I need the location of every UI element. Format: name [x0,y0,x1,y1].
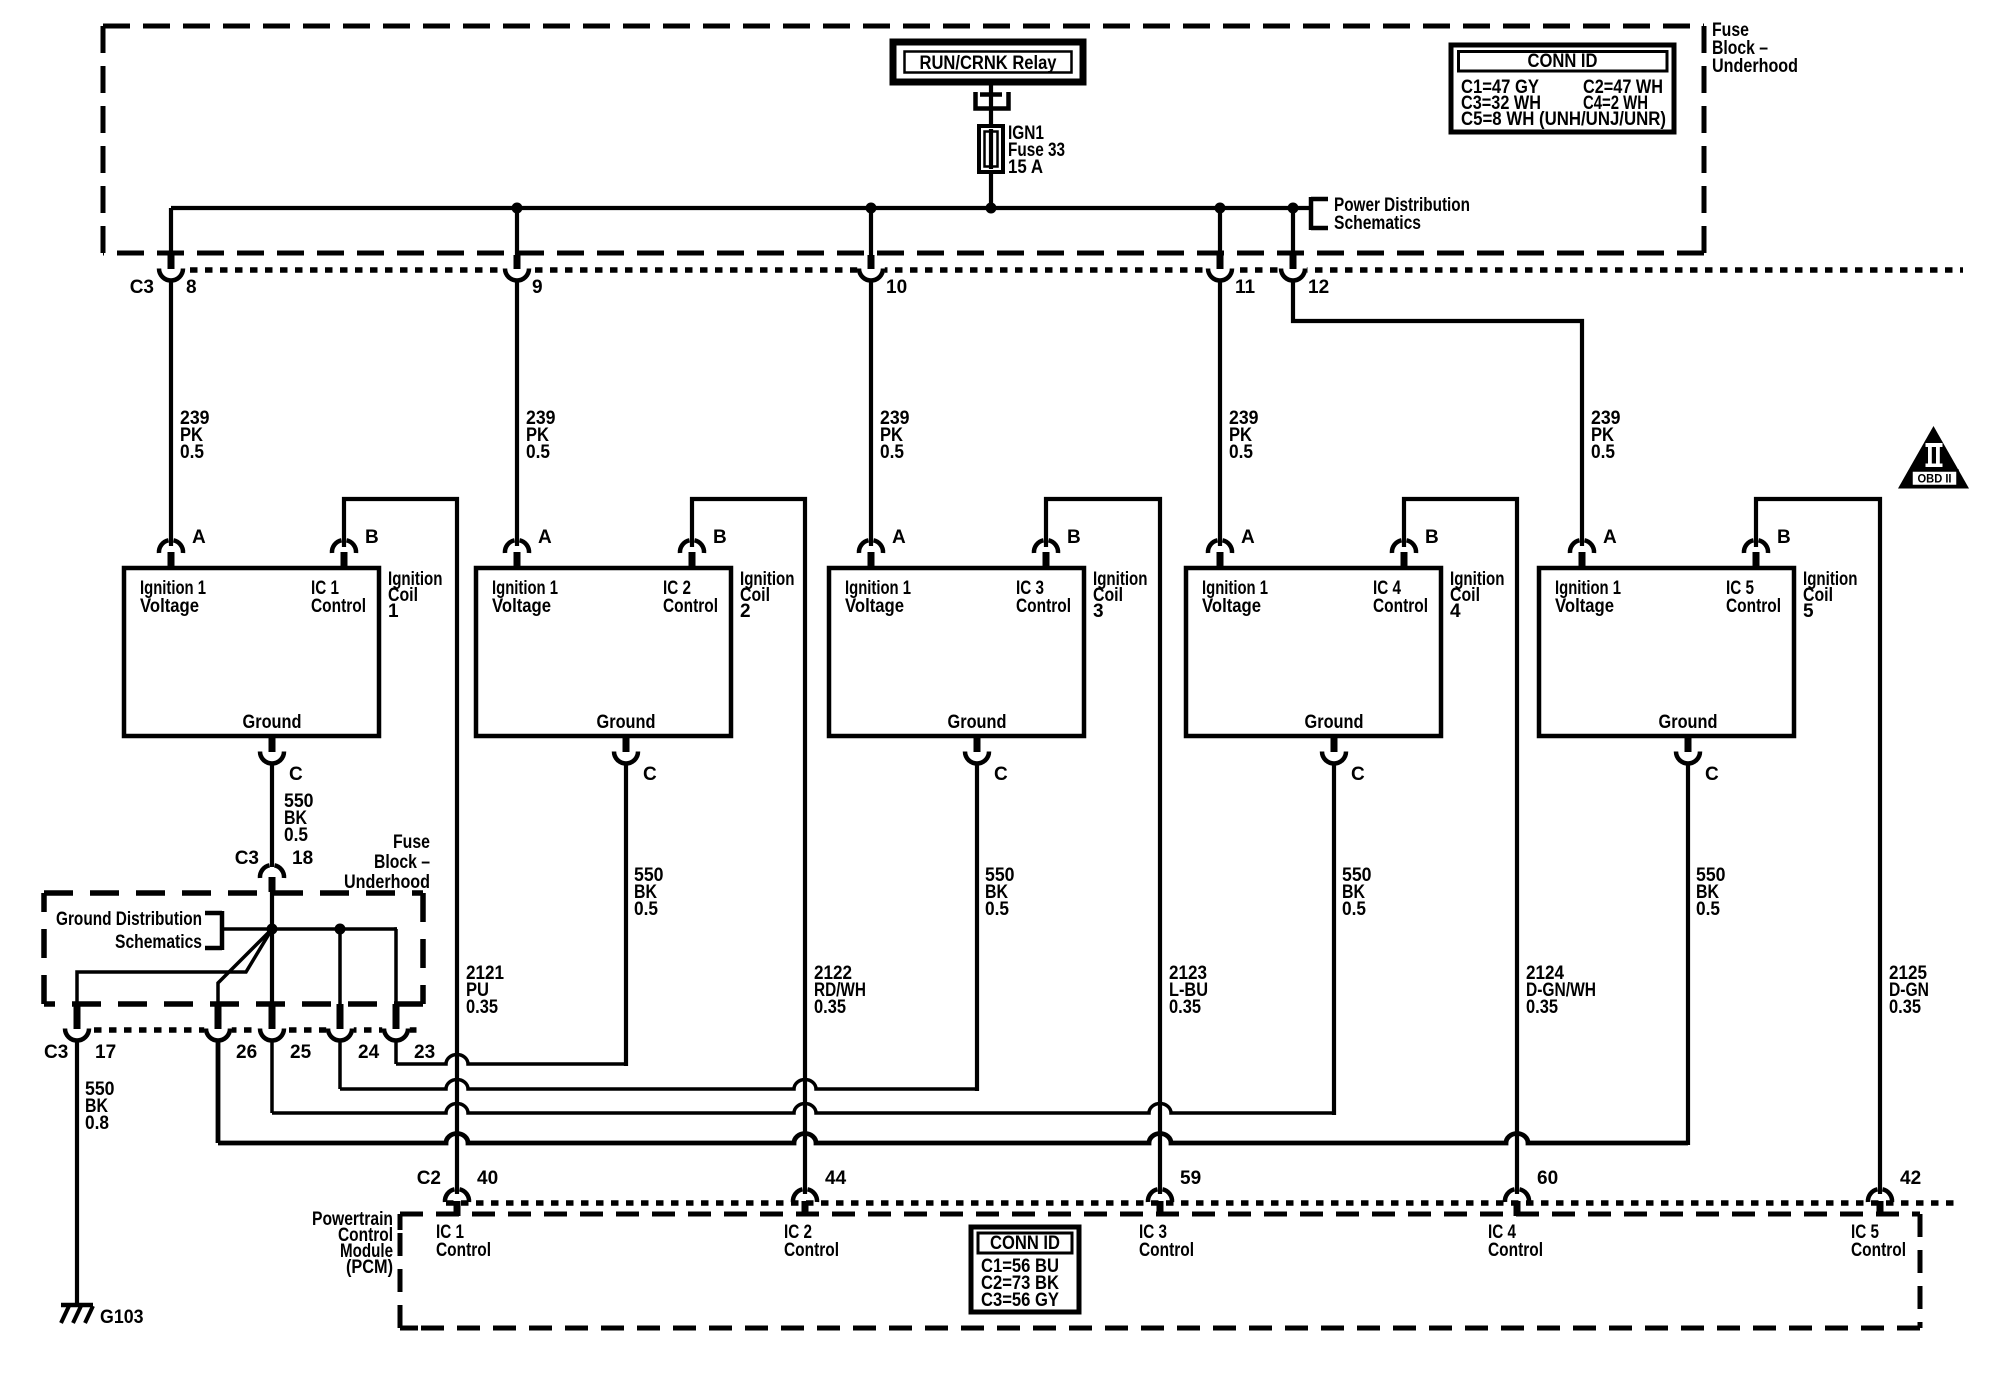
label C3 (top connector row) [130,277,154,298]
connector C3 pin 24 [326,1004,380,1063]
svg-text:C5=8 WH (UNH/UNJ/UNR): C5=8 WH (UNH/UNJ/UNR) [1461,109,1666,130]
svg-text:26: 26 [236,1042,257,1063]
svg-text:Ground: Ground [1305,712,1364,733]
svg-text:44: 44 [825,1168,847,1189]
connector pin B coil 3 [1034,527,1081,567]
label Ignition Coil 5 [1803,569,1858,622]
connector pin B coil 2 [680,527,727,567]
svg-text:Voltage: Voltage [845,596,904,617]
svg-text:C: C [1351,764,1365,785]
connector pin A coil 5 [1570,527,1617,567]
svg-text:C2: C2 [417,1168,441,1189]
connector C3 pin 23 [382,1004,435,1063]
svg-text:A: A [538,527,552,548]
wire ground coil 3 (pin 24) [340,764,1015,1091]
connector C2 pin 59 [1148,1168,1201,1216]
connector C3 pin 11 [1206,255,1256,298]
svg-text:15 A: 15 A [1008,157,1043,178]
svg-text:42: 42 [1900,1168,1921,1189]
wire ground coil 5 (pin 26) [218,764,1726,1145]
internal ground bus of fuse block [77,892,397,1029]
connector pin A coil 3 [859,527,906,567]
svg-text:Ground: Ground [948,712,1007,733]
svg-text:Ground Distribution: Ground Distribution [56,909,202,930]
svg-text:B: B [1425,527,1439,548]
connector row C3 lower (dotted) [64,1027,422,1033]
connector C2 pin 60 [1505,1168,1558,1216]
svg-text:A: A [892,527,906,548]
svg-text:17: 17 [95,1042,116,1063]
label IC 4 Control (PCM) [1488,1222,1543,1261]
ground distribution schematics reference bracket [56,909,222,953]
svg-text:0.5: 0.5 [880,442,904,463]
wire 239 PK 0.5 to coil 4 pin A [1220,281,1259,546]
connector C3 pin 9 [503,255,543,298]
svg-text:Control: Control [1373,596,1428,617]
ignition coil 2 box [476,568,731,736]
wire 2125 D-GN 0.35 coil 5 B to PCM [1756,499,1929,1194]
svg-text:A: A [1241,527,1255,548]
svg-text:0.5: 0.5 [1342,899,1366,920]
connector C2 pin 42 [1868,1168,1921,1216]
svg-text:Control: Control [1726,596,1781,617]
svg-text:C: C [1705,764,1719,785]
connector pin A coil 4 [1208,527,1255,567]
svg-text:0.35: 0.35 [814,997,846,1018]
label Ignition Coil 1 [388,569,443,622]
svg-text:Voltage: Voltage [140,596,199,617]
svg-text:C: C [289,764,303,785]
svg-text:Control: Control [784,1240,839,1261]
wire fuse to bus [989,172,993,208]
label Ignition Coil 3 [1093,569,1148,622]
connector pin C coil 4 [1320,737,1365,785]
label IGN1 Fuse 33 15 A [1008,123,1065,178]
svg-text:Voltage: Voltage [1202,596,1261,617]
svg-text:40: 40 [477,1168,498,1189]
svg-text:Block –: Block – [374,852,430,873]
svg-text:3: 3 [1093,601,1104,622]
svg-text:OBD II: OBD II [1918,474,1952,486]
junction dots on bus [512,203,1299,214]
svg-text:A: A [192,527,206,548]
svg-text:0.35: 0.35 [1526,997,1558,1018]
svg-text:Underhood: Underhood [344,872,430,893]
svg-text:0.5: 0.5 [526,442,550,463]
svg-text:0.35: 0.35 [1889,997,1921,1018]
svg-text:C: C [994,764,1008,785]
svg-text:C3: C3 [44,1042,68,1063]
svg-text:Ground: Ground [243,712,302,733]
svg-text:5: 5 [1803,601,1814,622]
svg-text:Voltage: Voltage [1555,596,1614,617]
svg-text:Underhood: Underhood [1712,56,1798,77]
label Ignition Coil 4 [1450,569,1505,622]
wire 2122 RD/WH 0.35 coil 2 B to PCM [692,499,866,1194]
svg-text:C: C [643,764,657,785]
svg-text:25: 25 [290,1042,312,1063]
svg-text:11: 11 [1235,277,1256,298]
ground G103 [61,1305,144,1328]
connector C3 pin 10 [857,255,907,298]
svg-text:Fuse: Fuse [393,832,430,853]
svg-text:Control: Control [663,596,718,617]
connector pin A coil 1 [159,527,206,567]
connector C2 pin 40 [445,1168,498,1216]
svg-text:CONN ID: CONN ID [1528,51,1598,72]
svg-text:Schematics: Schematics [115,932,202,953]
svg-text:C3=56 GY: C3=56 GY [981,1290,1059,1311]
svg-text:0.5: 0.5 [284,825,308,846]
svg-text:0.8: 0.8 [85,1113,109,1134]
connector C3 pin 25 [258,1004,312,1063]
svg-text:0.5: 0.5 [1591,442,1615,463]
OBD II symbol [1898,426,1969,489]
svg-text:0.5: 0.5 [985,899,1009,920]
svg-text:8: 8 [186,277,197,298]
connector pin C coil 3 [963,737,1008,785]
svg-text:1: 1 [388,601,399,622]
fuse block - underhood (dashed outline) [103,26,1704,253]
svg-text:12: 12 [1308,277,1329,298]
svg-text:2: 2 [740,601,751,622]
svg-text:B: B [365,527,379,548]
svg-text:B: B [1067,527,1081,548]
wire 2124 D-GN/WH 0.35 coil 4 B to PCM [1404,499,1596,1194]
label IC 1 Control (PCM) [436,1222,491,1261]
svg-text:B: B [713,527,727,548]
fuse block - underhood box 2 (dashed outline) [44,893,423,1004]
wire 239 PK 0.5 to coil 1 pin A [171,281,210,546]
svg-text:23: 23 [414,1042,435,1063]
wire ground coil 4 (pin 25) [272,764,1372,1115]
relay RUN/CRNK Relay [893,42,1083,82]
bus wire ignition feed [171,206,1311,210]
wire 239 PK 0.5 to coil 3 pin A [871,281,910,546]
conn id table (PCM) [971,1227,1079,1312]
wire ground coil 2 (pin 23) [396,764,664,1066]
svg-text:18: 18 [292,848,313,869]
connector pin C coil 1 [258,737,303,785]
connector pin A coil 2 [505,527,552,567]
svg-text:C3: C3 [235,848,259,869]
svg-text:0.5: 0.5 [1229,442,1253,463]
svg-text:0.5: 0.5 [1696,899,1720,920]
svg-text:RUN/CRNK Relay: RUN/CRNK Relay [920,53,1057,74]
wire 2121 PU 0.35 coil 1 B to PCM [344,499,504,1194]
ignition coil 3 box [829,568,1084,736]
connector row C3 (fuse block output, dotted) [160,267,1963,273]
wire bus drop at x=871 [869,208,873,258]
svg-text:0.35: 0.35 [1169,997,1201,1018]
label Ignition Coil 2 [740,569,795,622]
svg-text:Control: Control [1016,596,1071,617]
wire 550 BK 0.8 to ground [77,1041,115,1305]
label IC 2 Control (PCM) [784,1222,839,1261]
svg-text:Voltage: Voltage [492,596,551,617]
relay terminal (spade in cup) [976,82,1009,127]
wire bus drop at x=1220 [1218,208,1222,258]
connector pin B coil 4 [1392,527,1439,567]
power distribution schematics reference bracket [1311,195,1470,234]
label IC 3 Control (PCM) [1139,1222,1194,1261]
svg-text:4: 4 [1450,601,1461,622]
label C2 (PCM connector row) [417,1168,441,1189]
svg-text:60: 60 [1537,1168,1558,1189]
connector C3 pin 18 [235,848,313,892]
fuse IGN1 Fuse 33 15A [979,126,1003,172]
label Fuse Block - Underhood (top right) [1712,20,1798,77]
ignition coil 1 box [124,568,379,736]
svg-text:10: 10 [886,277,907,298]
svg-text:C3: C3 [130,277,154,298]
svg-text:24: 24 [358,1042,380,1063]
ignition coil 4 box [1186,568,1441,736]
connector row C2 (PCM, dotted) [446,1200,1960,1206]
powertrain control module box (dashed outline) [400,1214,1920,1328]
svg-text:(PCM): (PCM) [346,1257,393,1278]
conn id table (fuse block) [1451,45,1674,132]
svg-text:0.35: 0.35 [466,997,498,1018]
wire 2123 L-BU 0.35 coil 3 B to PCM [1046,499,1208,1194]
wire bus drop at x=517 [515,208,519,258]
svg-text:G103: G103 [100,1307,144,1328]
svg-text:A: A [1603,527,1617,548]
wire 239 PK 0.5 from pin 12 to coil 5 pin A [1293,281,1621,546]
connector C3 pin 12 [1279,255,1329,298]
svg-text:59: 59 [1180,1168,1201,1189]
connector pin B coil 5 [1744,527,1791,567]
connector pin C coil 5 [1674,737,1719,785]
svg-text:Schematics: Schematics [1334,213,1421,234]
label IC 5 Control (PCM) [1851,1222,1906,1261]
wire bus drop at x=171 [169,208,173,258]
svg-text:Control: Control [1488,1240,1543,1261]
label Fuse Block - Underhood (left) [344,832,430,893]
label C3 (lower connector row) [44,1042,68,1063]
wire 239 PK 0.5 to coil 2 pin A [517,281,556,546]
svg-text:Ground: Ground [1659,712,1718,733]
svg-text:0.5: 0.5 [180,442,204,463]
connector pin C coil 2 [612,737,657,785]
connector C3 pin 26 [204,1004,257,1063]
connector C2 pin 44 [793,1168,847,1216]
svg-text:CONN ID: CONN ID [990,1233,1060,1254]
wire 550 BK 0.5 coil 1 ground [272,764,314,867]
svg-text:9: 9 [532,277,543,298]
wire bus drop at x=1293 [1291,208,1295,258]
label Powertrain Control Module (PCM) [312,1209,393,1278]
ignition coil 5 box [1539,568,1794,736]
svg-text:Control: Control [311,596,366,617]
connector C3 pin 17 [63,1004,116,1063]
svg-text:B: B [1777,527,1791,548]
connector pin B coil 1 [332,527,379,567]
svg-text:Ground: Ground [597,712,656,733]
svg-text:0.5: 0.5 [634,899,658,920]
svg-text:Control: Control [1851,1240,1906,1261]
svg-text:Control: Control [436,1240,491,1261]
connector C3 pin 8 [157,255,197,298]
svg-text:Control: Control [1139,1240,1194,1261]
